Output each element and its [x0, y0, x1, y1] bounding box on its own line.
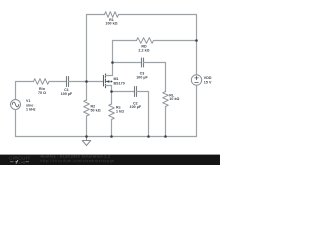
- capacitor C2: [135, 87, 137, 97]
- footer CircuitLab logo: [9, 156, 31, 165]
- svg-text:100 µF: 100 µF: [136, 76, 148, 80]
- svg-text:100 µF: 100 µF: [61, 92, 73, 96]
- node supply junction: [195, 39, 198, 42]
- svg-text:2.2 kΩ: 2.2 kΩ: [138, 48, 149, 52]
- wire RD rail right: [154, 40, 197, 42]
- wire top rail right: [119, 14, 197, 16]
- svg-text:100 kΩ: 100 kΩ: [105, 22, 117, 26]
- svg-text:10 kΩ: 10 kΩ: [169, 97, 179, 101]
- resistor Rs: [109, 104, 115, 120]
- resistor R1: [105, 12, 119, 18]
- node RL rail junction: [164, 135, 167, 138]
- svg-text:15 V: 15 V: [204, 80, 212, 84]
- wire drain column: [112, 41, 114, 76]
- svg-text:100 µF: 100 µF: [130, 105, 142, 109]
- ground: [82, 137, 90, 146]
- capacitor C1: [67, 77, 69, 87]
- node gate junction: [85, 80, 88, 83]
- transistor M1: [104, 74, 113, 88]
- wire C1 to gate node: [69, 81, 104, 83]
- wire V1 to ground rail: [15, 110, 17, 137]
- svg-text:http://circuitlab.com/c/embrke: http://circuitlab.com/c/embrketavpge: [41, 159, 115, 163]
- footer bar: [0, 155, 220, 165]
- wire C3 to output column: [144, 63, 166, 92]
- wire VDD to ground rail: [196, 85, 198, 136]
- label R2 value: [91, 105, 101, 113]
- capacitor C3: [142, 58, 144, 67]
- wire V1 to input row: [16, 82, 34, 100]
- svg-text:70 Ω: 70 Ω: [38, 91, 46, 95]
- svg-text:50 kΩ: 50 kΩ: [91, 108, 101, 112]
- wire top rail left: [87, 14, 105, 16]
- svg-text:LAB: LAB: [19, 161, 26, 165]
- label C1 value: [61, 88, 73, 96]
- resistor RL: [163, 92, 169, 107]
- label M1 value: [114, 77, 125, 85]
- svg-text:BS170: BS170: [114, 81, 125, 85]
- label VDD value: [204, 76, 212, 84]
- resistor R2: [84, 100, 90, 116]
- label V1 value: [26, 99, 36, 111]
- label C3 value: [136, 72, 148, 80]
- wire Rin to C1: [49, 81, 67, 83]
- label C2 value: [130, 101, 142, 109]
- label RL value: [169, 93, 179, 101]
- node ground junction: [85, 135, 88, 138]
- footer attribution text: [41, 155, 115, 163]
- wire C2 branch: [112, 91, 135, 93]
- wire right supply column upper: [196, 15, 198, 75]
- wire R2 to ground rail: [86, 116, 88, 137]
- wire C3 branch: [113, 62, 142, 64]
- svg-text:1 kHz: 1 kHz: [26, 108, 36, 112]
- label Rs value: [116, 106, 124, 114]
- node drain junction: [111, 61, 114, 64]
- wire bottom ground rail: [16, 136, 197, 138]
- wire RD rail left: [113, 40, 137, 42]
- voltage source VDD: [191, 75, 201, 85]
- wire source stub down: [111, 86, 113, 92]
- label R1 value: [105, 18, 117, 26]
- node source junction: [110, 90, 113, 93]
- label RD value: [138, 45, 149, 53]
- resistor RD: [137, 38, 154, 44]
- resistor Rin: [34, 79, 50, 85]
- wire left bias column: [86, 15, 88, 82]
- wire gate node to R2: [86, 82, 88, 101]
- label Rin value: [38, 87, 46, 95]
- wire Rs to ground rail: [111, 120, 113, 137]
- svg-text:Huntley : ELEC2003 Simulation: Huntley : ELEC2003 Simulation 2.2: [41, 155, 111, 159]
- wire source to Rs: [111, 92, 113, 105]
- wire RL to ground rail: [165, 107, 167, 137]
- node C2 rail junction: [147, 135, 150, 138]
- voltage source V1: [11, 100, 21, 110]
- wire C2 to ground rail: [137, 92, 149, 137]
- node Rs rail junction: [110, 135, 113, 138]
- svg-text:1 kΩ: 1 kΩ: [116, 110, 124, 114]
